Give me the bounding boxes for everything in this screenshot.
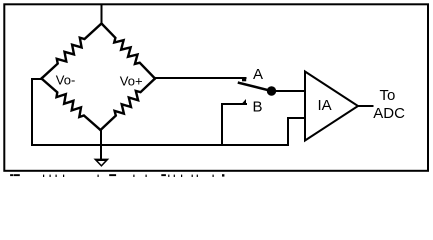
svg-text:B: B [253, 98, 263, 115]
svg-text:Vo+: Vo+ [120, 73, 143, 88]
svg-text:Vo-: Vo- [56, 73, 76, 88]
svg-text:ADC: ADC [373, 105, 405, 122]
svg-text:A: A [253, 66, 263, 83]
svg-text:IA: IA [318, 97, 332, 114]
svg-text:To: To [380, 87, 396, 104]
